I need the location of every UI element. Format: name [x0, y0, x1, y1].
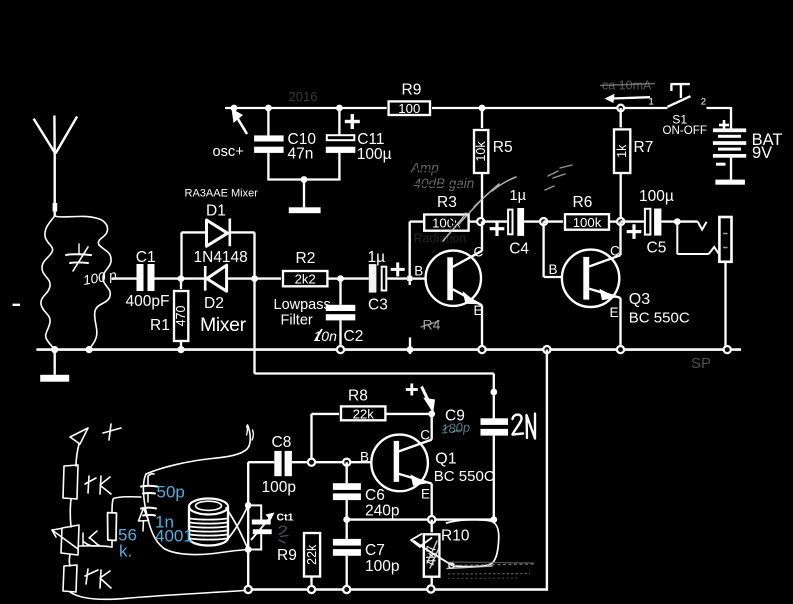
svg-text:R9: R9 [277, 547, 297, 564]
svg-text:k.: k. [119, 542, 132, 561]
svg-text:22k: 22k [353, 406, 375, 421]
svg-text:470: 470 [174, 306, 188, 327]
svg-text:ON-OFF: ON-OFF [663, 124, 707, 137]
svg-text:4001: 4001 [155, 527, 193, 546]
svg-text:Ct1: Ct1 [277, 512, 294, 524]
svg-text:C4: C4 [509, 241, 529, 258]
svg-text:Amp: Amp [410, 161, 439, 176]
svg-text:22k: 22k [305, 544, 319, 565]
svg-text:100p: 100p [365, 558, 399, 575]
svg-text:E: E [610, 305, 619, 320]
svg-text:2016: 2016 [289, 89, 318, 104]
svg-text:Mixer: Mixer [200, 314, 247, 336]
svg-text:40dB gain: 40dB gain [414, 176, 475, 191]
svg-text:Filter: Filter [281, 312, 313, 328]
svg-text:R1: R1 [150, 317, 170, 334]
svg-text:1N4148: 1N4148 [194, 249, 248, 266]
svg-text:400pF: 400pF [126, 293, 170, 310]
svg-text:100k: 100k [573, 215, 602, 230]
svg-text:C8: C8 [272, 434, 292, 451]
svg-text:240p: 240p [365, 502, 399, 519]
svg-text:R2: R2 [296, 250, 316, 267]
svg-text:R9: R9 [402, 82, 422, 99]
svg-text:100 p: 100 p [82, 267, 118, 288]
svg-text:1k: 1k [615, 144, 629, 158]
svg-text:C1: C1 [136, 249, 156, 266]
svg-text:D2: D2 [204, 295, 224, 312]
svg-text:47n: 47n [288, 146, 314, 163]
svg-text:50p: 50p [157, 483, 185, 502]
svg-text:C: C [474, 244, 484, 259]
svg-text:2: 2 [701, 97, 706, 108]
svg-text:B: B [414, 264, 423, 279]
svg-text:Q3: Q3 [629, 291, 650, 308]
svg-text:BC 550C: BC 550C [629, 309, 690, 326]
svg-text:SP: SP [691, 355, 711, 372]
svg-text:9V: 9V [752, 144, 772, 162]
svg-text:100p: 100p [262, 479, 296, 496]
svg-text:E: E [421, 486, 430, 501]
svg-text:C7: C7 [365, 542, 385, 559]
svg-text:2k2: 2k2 [295, 271, 316, 286]
svg-text:R4: R4 [423, 317, 441, 333]
svg-text:D1: D1 [206, 202, 226, 219]
svg-text:1µ: 1µ [510, 188, 527, 204]
svg-text:C: C [420, 428, 430, 443]
svg-text:R10: R10 [441, 527, 470, 544]
svg-text:R7: R7 [634, 139, 654, 156]
svg-text:B: B [549, 262, 558, 277]
svg-text:Lowpass: Lowpass [274, 297, 331, 313]
svg-text:R8: R8 [348, 387, 368, 404]
svg-text:100: 100 [398, 101, 420, 116]
svg-text:E: E [474, 303, 483, 318]
svg-text:C: C [610, 243, 620, 258]
svg-text:1µ: 1µ [368, 249, 386, 266]
svg-text:C3: C3 [368, 297, 388, 314]
svg-text:100µ: 100µ [639, 188, 674, 205]
svg-text:C6: C6 [365, 487, 385, 504]
svg-text:C2: C2 [344, 328, 364, 345]
svg-text:R3: R3 [437, 194, 457, 211]
svg-text:R6: R6 [573, 194, 593, 211]
svg-text:R5: R5 [493, 139, 513, 156]
svg-text:Radiation: Radiation [414, 232, 467, 246]
svg-text:RA3AAE Mixer: RA3AAE Mixer [185, 188, 259, 200]
svg-text:100µ: 100µ [357, 146, 392, 163]
svg-text:10k: 10k [474, 141, 488, 162]
svg-text:C5: C5 [647, 240, 667, 257]
svg-text:osc+: osc+ [213, 144, 244, 160]
svg-text:Q1: Q1 [435, 451, 456, 468]
svg-text:BC 550C: BC 550C [434, 468, 495, 485]
